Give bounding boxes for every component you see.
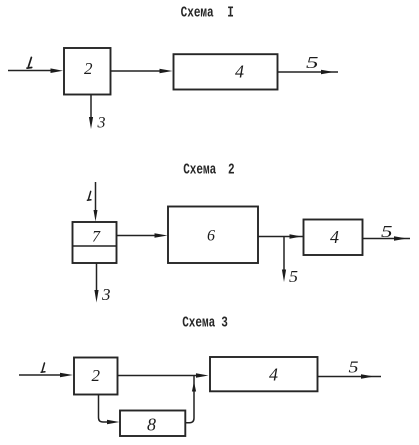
- arrowhead into box 6: [155, 233, 168, 238]
- svg-text:5: 5: [349, 358, 359, 377]
- arrowhead into box 4 scheme2: [290, 234, 302, 239]
- branch wire down node5 scheme2: [283, 237, 285, 271]
- svg-text:4: 4: [330, 227, 339, 247]
- svg-text:2: 2: [228, 161, 235, 178]
- block 4 scheme1: [174, 54, 278, 89]
- svg-text:Схема: Схема: [181, 4, 214, 21]
- arrowhead into box 2: [51, 68, 64, 73]
- wire input scheme1: [8, 70, 52, 72]
- wire output scheme1: [278, 71, 339, 73]
- wire output scheme3: [318, 376, 382, 378]
- node 1 label scheme3: [41, 363, 45, 372]
- block 7 scheme2: [73, 222, 117, 263]
- arrowhead output scheme3: [361, 374, 374, 379]
- block 4 scheme2: [304, 220, 363, 256]
- arrowhead into box 4 scheme1: [160, 69, 173, 74]
- svg-text:I: I: [227, 4, 234, 21]
- svg-text:4: 4: [235, 62, 244, 82]
- wire down from block7: [96, 263, 98, 291]
- arrowhead into box 4 scheme3: [196, 373, 209, 378]
- wire block2 to block4: [111, 70, 162, 72]
- svg-text:Схема: Схема: [182, 314, 215, 331]
- svg-text:3: 3: [97, 115, 106, 132]
- arrowhead output scheme1: [321, 70, 334, 75]
- wire input scheme3: [19, 374, 61, 376]
- svg-text:3: 3: [101, 285, 111, 304]
- main wire block2 to block4 scheme3: [118, 375, 198, 377]
- svg-text:3: 3: [221, 314, 228, 331]
- svg-text:6: 6: [207, 228, 215, 245]
- arrowhead into box 8: [107, 420, 120, 425]
- svg-text:Схема: Схема: [183, 161, 216, 178]
- block 6 scheme2: [168, 207, 258, 264]
- wire output scheme2: [363, 238, 411, 240]
- block 2 scheme1: [64, 48, 111, 95]
- node 1 label scheme2: [87, 191, 91, 200]
- svg-text:2: 2: [92, 366, 101, 385]
- svg-text:2: 2: [84, 59, 93, 78]
- divider in block 7: [73, 245, 117, 247]
- wire input top scheme2: [95, 182, 97, 211]
- wire block6 to block4 scheme2: [258, 236, 303, 238]
- arrowhead down node3 scheme1: [89, 117, 93, 129]
- block 2 scheme3: [74, 358, 118, 395]
- arrowhead down node3 scheme2: [94, 290, 98, 303]
- arrowhead up on feedback scheme3: [192, 382, 196, 392]
- svg-text:5: 5: [306, 53, 319, 72]
- wire block7 to block6: [117, 235, 157, 237]
- arrowhead into box 2 scheme3: [60, 373, 73, 378]
- svg-text:8: 8: [147, 415, 156, 435]
- feedback wire block8 up to junction: [186, 376, 195, 423]
- node 1 label scheme1: [27, 57, 32, 68]
- svg-text:5: 5: [381, 222, 393, 241]
- svg-text:5: 5: [289, 267, 298, 286]
- block 4 scheme3: [210, 357, 318, 391]
- feedback wire block2 down to block8: [99, 395, 109, 422]
- arrowhead into box 7: [94, 210, 98, 222]
- wire down from block2: [90, 95, 92, 118]
- svg-text:4: 4: [269, 365, 278, 385]
- arrowhead output scheme2: [394, 236, 407, 241]
- block 8 scheme3: [120, 411, 185, 437]
- arrowhead down node5 scheme2: [282, 270, 286, 283]
- svg-text:7: 7: [92, 229, 101, 246]
